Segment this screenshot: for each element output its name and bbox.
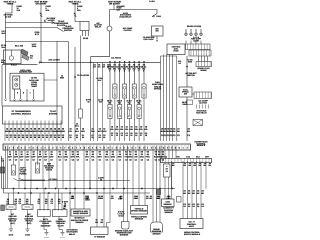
svg-text:B4: B4: [77, 151, 79, 154]
wires band2 to narrow box and CMP: [165, 163, 172, 199]
wire x80.5 bottom: [80, 118, 82, 141]
svg-text:2: 2: [187, 146, 188, 149]
injector INJ7 wire bottom: [138, 119, 140, 142]
CMP text: [164, 201, 173, 206]
svg-text:SENSOR: SENSOR: [135, 217, 144, 220]
bottom left drop labels: [6, 198, 61, 205]
svg-text:PACK: PACK: [173, 50, 179, 53]
svg-text:C2: C2: [65, 159, 67, 162]
injector INJ3 label: [117, 64, 123, 73]
label fan feed: [196, 110, 207, 115]
svg-text:8: 8: [143, 70, 144, 73]
wire x90.6 to PCM: [90, 62, 92, 141]
svg-text:2: 2: [9, 146, 10, 149]
svg-text:(ASD) RELAY: (ASD) RELAY: [119, 16, 132, 19]
label rail1 destination: [54, 20, 69, 27]
svg-text:BLK: BLK: [2, 32, 7, 35]
svg-text:C2: C2: [44, 159, 46, 162]
svg-text:B7: B7: [99, 151, 101, 154]
wire feed2: [40, 5, 42, 63]
svg-text:B3: B3: [72, 151, 74, 154]
svg-text:7: 7: [138, 70, 139, 73]
svg-text:INJ: INJ: [137, 102, 140, 105]
svg-text:C1: C1: [38, 202, 40, 205]
svg-text:SWITCH MODULE: SWITCH MODULE: [184, 233, 201, 236]
label clutch right: [30, 55, 34, 60]
label C2 row: [165, 155, 210, 158]
wires C2 to module: [183, 161, 201, 219]
svg-text:SENSOR: SENSOR: [120, 234, 129, 237]
svg-text:B2: B2: [125, 151, 127, 154]
label to transmission control module: [11, 110, 31, 115]
resistor on x80.5: [80, 36, 82, 110]
svg-text:A21 14 BRN: A21 14 BRN: [48, 59, 60, 62]
svg-text:3: 3: [120, 146, 121, 149]
label BL2: [24, 213, 34, 225]
PCM connector C1 band: [3, 144, 191, 150]
wire a/c branch: [186, 56, 188, 87]
svg-text:B7: B7: [155, 151, 157, 154]
wire box to band: [192, 93, 194, 95]
svg-text:52: 52: [30, 136, 32, 139]
svg-text:48: 48: [62, 136, 64, 139]
injector pre-band labels: [110, 126, 149, 137]
label fuse1 lower: [3, 14, 13, 19]
svg-text:B5: B5: [86, 151, 88, 154]
svg-text:10: 10: [6, 136, 8, 139]
svg-text:BRN: BRN: [60, 76, 65, 79]
label PCM right: [195, 140, 209, 147]
wire feed4 jog to injector rail: [91, 31, 110, 62]
label asd relay: [119, 12, 132, 19]
labels above band mid: [69, 128, 107, 139]
svg-text:SW: SW: [155, 30, 158, 33]
DLC text inside: [29, 77, 39, 89]
TP sensor box: [91, 227, 109, 235]
wire below pressure switch: [186, 97, 188, 141]
svg-text:ORG: ORG: [85, 198, 90, 201]
injector INJ8 wire bottom: [143, 98, 145, 141]
spark plug wire labels: [191, 36, 202, 43]
svg-text:13: 13: [121, 134, 123, 137]
label 14 GA branch: [187, 58, 193, 63]
svg-text:50: 50: [99, 136, 101, 139]
label EGR2: [44, 162, 55, 171]
narrow box below band2: [164, 164, 171, 177]
label C100 right: [156, 15, 161, 18]
svg-text:A7: A7: [44, 151, 46, 154]
node arrow right rail1: [52, 21, 55, 23]
svg-text:SWITCH: SWITCH: [64, 29, 72, 32]
node HOT AT ALL TIMES feed 1 label: [4, 1, 17, 6]
svg-text:BLK: BLK: [58, 155, 63, 158]
svg-text:A2: A2: [15, 151, 17, 154]
C2 connector stubs: [162, 146, 173, 159]
svg-text:BLK: BLK: [98, 79, 103, 82]
wire BL1 down: [10, 210, 12, 230]
injector INJ2 body: [113, 84, 117, 98]
ground G11: [9, 229, 13, 232]
TP wire labels: [95, 219, 104, 224]
wire mid vertical x68.5: [68, 42, 70, 142]
svg-text:SENSOR: SENSOR: [165, 211, 174, 214]
svg-text:C1: C1: [119, 159, 121, 162]
svg-text:20: 20: [46, 136, 48, 139]
label under switch: [182, 101, 188, 106]
svg-text:GRN: GRN: [111, 155, 116, 158]
arrow coil feed: [152, 15, 155, 17]
svg-text:GRN: GRN: [32, 45, 37, 48]
band D stubs: [197, 105, 209, 109]
svg-text:38: 38: [22, 136, 24, 139]
svg-text:SYSTEM: SYSTEM: [49, 112, 58, 115]
svg-text:7: 7: [29, 146, 30, 149]
svg-text:66: 66: [38, 136, 40, 139]
svg-text:BLU: BLU: [105, 155, 110, 158]
svg-text:5: 5: [163, 146, 164, 149]
svg-text:PNK: PNK: [146, 155, 151, 158]
transmission label box: [3, 106, 63, 124]
a/c pressure switch box: [179, 87, 192, 97]
label above box4: [63, 205, 66, 210]
A/C relay box: [80, 22, 89, 31]
svg-text:C2: C2: [125, 159, 127, 162]
svg-text:INJ: INJ: [128, 102, 131, 105]
below band2 label row: [172, 162, 212, 167]
svg-text:8: 8: [33, 146, 34, 149]
label a/c select sw: [185, 72, 197, 77]
label data link connector: [19, 69, 32, 74]
svg-text:18: 18: [100, 179, 102, 182]
svg-text:INJ: INJ: [108, 102, 111, 105]
label left edge y61: [1, 59, 6, 64]
svg-text:A5: A5: [32, 151, 34, 154]
pressure switch text: [182, 88, 189, 95]
wire ignition down arrow: [156, 36, 158, 40]
svg-text:11: 11: [111, 134, 113, 137]
svg-text:20A: 20A: [77, 9, 81, 12]
wire mid vertical x75: [74, 47, 76, 141]
center bottom drop labels: [71, 195, 172, 200]
svg-text:RED: RED: [61, 130, 66, 133]
label a/c comp clutch: [123, 27, 133, 32]
svg-text:17: 17: [10, 136, 12, 139]
svg-text:7: 7: [135, 146, 136, 149]
label BL1: [8, 213, 18, 225]
svg-text:SPEED SENSOR: SPEED SENSOR: [131, 209, 147, 212]
svg-text:C3: C3: [162, 159, 164, 162]
svg-text:GRN: GRN: [188, 60, 193, 63]
svg-text:C3: C3: [72, 159, 74, 162]
svg-text:C3: C3: [112, 159, 114, 162]
coil pack stubs down: [199, 56, 208, 62]
svg-text:C2: C2: [9, 159, 11, 162]
svg-text:C2: C2: [15, 159, 17, 162]
injector INJ2 wire top: [114, 62, 116, 84]
rail junction dots: [13, 188, 173, 190]
fuse F9 symbol: [40, 13, 43, 16]
ground G14: [61, 233, 65, 236]
svg-text:RELAY: RELAY: [95, 26, 102, 29]
svg-text:3: 3: [155, 146, 156, 149]
svg-text:B2: B2: [65, 151, 67, 154]
CKP text: [152, 228, 162, 235]
svg-text:RELAY: RELAY: [69, 233, 76, 236]
svg-text:SW: SW: [184, 92, 187, 95]
wire DLC to x57: [44, 79, 57, 81]
label left edge: [1, 157, 4, 162]
svg-text:50: 50: [76, 136, 78, 139]
injector INJ1 mid label: [107, 100, 113, 105]
svg-text:6: 6: [133, 70, 134, 73]
injector INJ2 wire bottom: [114, 98, 116, 141]
label 5 BLK: [11, 64, 17, 67]
injector INJ1 label: [107, 64, 113, 73]
svg-text:9: 9: [143, 146, 144, 149]
bottom rail upper: [20, 181, 130, 189]
svg-text:SENSOR: SENSOR: [153, 232, 162, 235]
node HOT IN RUN feed 2 label: [35, 1, 48, 6]
svg-text:6: 6: [131, 146, 132, 149]
fuse F3 label: [77, 5, 83, 12]
label ect wires: [118, 195, 123, 200]
wire small arrow diag: [44, 18, 47, 21]
svg-text:SENSOR: SENSOR: [76, 221, 85, 224]
node HOT feed3 label: [69, 1, 82, 6]
label mid blob 1: [60, 74, 65, 79]
svg-text:C1: C1: [59, 159, 61, 162]
label CMP below: [163, 207, 174, 214]
sensor box BL3: [38, 210, 51, 217]
wire BL3 down: [43, 217, 45, 230]
svg-text:B5: B5: [141, 151, 143, 154]
svg-text:B6: B6: [92, 151, 94, 154]
svg-text:RED: RED: [118, 155, 123, 158]
injector supply rail: [41, 61, 161, 63]
label below MAP: [71, 217, 89, 224]
svg-text:C1: C1: [51, 202, 53, 205]
ground G13: [45, 233, 49, 236]
injector INJ3 body low: [118, 105, 122, 119]
wire color labels row left: [5, 128, 66, 139]
svg-text:C100: C100: [156, 15, 161, 18]
VSS text: [131, 207, 147, 212]
ignition coil box: [167, 44, 185, 55]
label module below: [184, 231, 201, 236]
injector INJ4 label: [122, 64, 128, 73]
injector INJ5 label: [126, 64, 132, 73]
svg-text:2: 2: [44, 146, 45, 149]
svg-text:SWITCH: SWITCH: [187, 74, 195, 77]
junction jog rail: [90, 61, 92, 63]
MAP text: [73, 210, 89, 215]
wire feed3: [75, 5, 80, 22]
fuse F9 label: [46, 5, 52, 12]
svg-text:A1: A1: [9, 151, 11, 154]
svg-text:C1: C1: [135, 159, 137, 162]
svg-text:B1: B1: [119, 151, 121, 154]
wire rail to A/C relay: [6, 22, 54, 24]
svg-text:C2: C2: [39, 159, 41, 162]
svg-text:C2: C2: [26, 159, 28, 162]
svg-text:C2: C2: [86, 159, 88, 162]
injector INJ6 label: [131, 64, 137, 73]
wire ground link 4: [59, 230, 63, 233]
svg-text:ASSY: ASSY: [189, 225, 195, 228]
label 14 GA right: [149, 0, 155, 3]
wire ground link 3: [44, 230, 47, 233]
sensor box BL2: [22, 205, 33, 210]
wire clutch bottom rail: [2, 64, 38, 65]
ground G12: [26, 229, 30, 232]
DLC stub arrows: [14, 99, 16, 101]
wire band2 left drop: [171, 161, 173, 189]
svg-text:OR START: OR START: [35, 3, 47, 6]
ignition switch box: [152, 26, 164, 36]
pressure switch side band: [194, 92, 212, 99]
label x176.8: [178, 60, 182, 65]
EGR solenoid 2: [35, 163, 39, 173]
svg-text:50: 50: [82, 136, 84, 139]
svg-text:50: 50: [92, 136, 94, 139]
svg-text:C2: C2: [165, 155, 167, 158]
node HOT IN RUN feed4 label: [108, 1, 121, 6]
wire top bus to coil: [110, 10, 158, 17]
svg-text:C2: C2: [106, 159, 108, 162]
svg-text:59: 59: [34, 136, 36, 139]
small connector box far left: [1, 205, 5, 211]
svg-text:TIMES: TIMES: [7, 3, 14, 6]
label powertrain control module: [95, 147, 134, 150]
injector INJ8 label: [141, 64, 147, 73]
relay stub labels: [83, 37, 89, 40]
coil box text: [172, 46, 181, 53]
svg-text:C1: C1: [45, 202, 47, 205]
label ground G12: [25, 233, 30, 236]
A/C compressor clutch box: [4, 50, 22, 64]
svg-text:CORE: CORE: [193, 40, 199, 43]
svg-text:CONTROL MODULE: CONTROL MODULE: [11, 112, 31, 115]
svg-text:16: 16: [135, 134, 137, 137]
svg-text:2: 2: [80, 146, 81, 149]
svg-text:8: 8: [68, 146, 69, 149]
center below-band wires: [57, 146, 160, 229]
svg-text:10A: 10A: [46, 9, 50, 12]
label mid blob 2: [96, 77, 103, 82]
injector INJ3 wire bottom: [119, 119, 121, 142]
svg-text:7: 7: [64, 146, 65, 149]
svg-text:B8: B8: [158, 151, 160, 154]
svg-text:14L RD/14: 14L RD/14: [111, 56, 122, 59]
svg-text:41: 41: [58, 136, 60, 139]
svg-text:C1: C1: [99, 159, 101, 162]
gauge circle symbol: [107, 26, 112, 31]
injector INJ6 wire top: [133, 62, 135, 84]
injector INJ1 body low: [108, 105, 112, 119]
coil symbol inside clutch: [9, 56, 13, 60]
svg-text:1: 1: [147, 146, 148, 149]
label mid blob 4: [75, 123, 80, 128]
label hot in run injector rail: [111, 56, 122, 59]
svg-text:C3: C3: [92, 159, 94, 162]
svg-text:C2: C2: [20, 159, 22, 162]
svg-text:NIPPON: NIPPON: [154, 88, 162, 91]
label under band C: [197, 67, 210, 72]
svg-text:C1: C1: [155, 159, 157, 162]
svg-text:B9: B9: [162, 151, 164, 154]
svg-text:B6: B6: [147, 151, 149, 154]
PCM connector C2 band: [161, 158, 212, 162]
condenser fan box: [193, 120, 203, 126]
svg-text:B9: B9: [112, 151, 114, 154]
svg-text:B3: B3: [129, 151, 131, 154]
svg-text:8: 8: [139, 146, 140, 149]
svg-text:1: 1: [76, 146, 77, 149]
wire feed1 down-left: [6, 5, 13, 100]
svg-text:27: 27: [50, 136, 52, 139]
svg-text:BLK: BLK: [1, 61, 6, 64]
svg-text:4 GA: 4 GA: [186, 155, 191, 158]
injector INJ8 body: [142, 84, 146, 98]
svg-text:1: 1: [41, 146, 42, 149]
label left edge C2 5 BLK: [2, 30, 7, 35]
ignition box text: [155, 28, 159, 33]
svg-text:PRESS SENSOR: PRESS SENSOR: [73, 212, 89, 215]
wires from transmission box to PCM: [5, 124, 61, 141]
label left margin C2: [1, 44, 7, 49]
svg-text:6: 6: [96, 146, 97, 149]
svg-text:18 C2: 18 C2: [118, 214, 124, 217]
svg-text:COIL PACK: COIL PACK: [143, 38, 154, 41]
svg-text:C2: C2: [32, 159, 34, 162]
svg-text:C3: C3: [147, 159, 149, 162]
spark plug wires down: [186, 41, 201, 45]
svg-text:15: 15: [130, 134, 132, 137]
data link connector box: [10, 73, 44, 101]
injector INJ1 wire top: [109, 62, 111, 104]
svg-text:9: 9: [72, 146, 73, 149]
svg-text:7: 7: [100, 146, 101, 149]
svg-text:50: 50: [87, 101, 89, 104]
TP label below: [94, 236, 106, 239]
svg-text:(A/T): (A/T): [10, 222, 15, 225]
label 14 BRN rail: [48, 59, 60, 62]
svg-text:A4: A4: [26, 151, 28, 154]
svg-text:ORG: ORG: [102, 130, 107, 133]
DLC stub labels: [17, 92, 32, 95]
svg-text:TAN: TAN: [85, 155, 89, 158]
label ground G13: [44, 237, 49, 240]
svg-text:B4: B4: [135, 151, 137, 154]
svg-text:BLK 150: BLK 150: [15, 45, 24, 48]
DLC pin stubs: [14, 89, 16, 99]
svg-text:SENSOR: SENSOR: [164, 203, 173, 206]
label rail2 destination: [62, 25, 74, 32]
injector INJ5 wire top: [128, 62, 130, 104]
svg-text:A8: A8: [50, 151, 52, 154]
mid rail tap wires down: [92, 62, 94, 141]
node C100 arrow end: [5, 99, 7, 101]
injector INJ5 mid label: [126, 100, 132, 105]
fuse F11 label: [17, 5, 23, 12]
bottom left drop wires: [9, 189, 63, 211]
svg-text:1: 1: [183, 146, 184, 149]
crankshaft sensor body: [151, 222, 163, 232]
svg-text:1: 1: [109, 70, 110, 73]
svg-text:C1: C1: [19, 202, 21, 205]
mid tap labels: [93, 63, 110, 68]
svg-text:TO CLUSTER: TO CLUSTER: [77, 74, 90, 77]
